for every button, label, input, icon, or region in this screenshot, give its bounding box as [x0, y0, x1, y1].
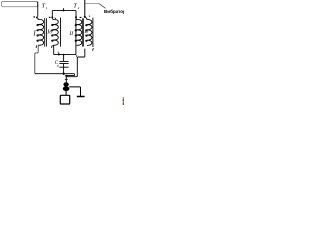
node a (terminal dot, T1 left coil top)	[36, 17, 38, 19]
tick comma at winding I bottom	[35, 45, 38, 48]
capacitor Сб lead lower	[63, 64, 65, 74]
transformer T1 winding Iб (right coil)	[52, 18, 59, 45]
node: dot on mid bus	[58, 53, 60, 55]
wire: vibrator to battery	[65, 91, 67, 96]
terminal letter mark a1	[33, 16, 35, 17]
svg-text:1: 1	[46, 6, 48, 10]
tick comma below T2 left	[75, 55, 78, 57]
tick comma at winding Iб bottom	[51, 46, 54, 49]
transformer T2 winding (right coil)	[85, 17, 92, 45]
node b (terminal dot, T1 right coil top)	[51, 16, 53, 18]
wire: vibrator to ground	[69, 87, 80, 96]
wire: T1 right coil bottom to mid bus	[53, 18, 76, 55]
ground	[77, 96, 85, 98]
tick at T1 right coil top	[55, 18, 56, 19]
transformer T2 winding (left coil)	[75, 18, 82, 45]
wire: from T2 center down to vibrator branch	[66, 49, 85, 77]
node c (terminal dot, T2 left coil top)	[75, 16, 77, 18]
svg-text:Вибратор: Вибратор	[104, 8, 124, 14]
core T2 (two lines)	[82, 18, 84, 46]
node: dot cap top junction	[63, 54, 65, 56]
terminal letter mark a2	[49, 17, 51, 18]
core line right of T2	[92, 18, 94, 47]
node: dot lower bus / cap	[62, 73, 64, 75]
input cable (grey rounded box, top-left)	[1, 2, 37, 7]
capacitor Сб plate 1	[59, 60, 68, 62]
transformer T1 winding I (left coil)	[37, 18, 44, 45]
terminal letter mark a3	[80, 17, 82, 18]
battery box	[60, 95, 69, 104]
tick at T2 right coil top	[89, 16, 90, 17]
wire: left vertical from cable to T1 primary top	[37, 2, 39, 17]
wire: T2 right coil top from image top	[84, 0, 86, 16]
wire: up from T1 winding Iб top	[52, 10, 76, 16]
capacitor Сб plate 2	[59, 63, 68, 65]
node: junction dot on top wire with stub	[63, 9, 65, 11]
vibrator armature (upper lobe)	[63, 82, 68, 86]
wire: down to vibrator contact	[65, 76, 67, 83]
red page artifact at right edge	[123, 97, 124, 99]
tick comma below T2 right	[92, 48, 95, 51]
wire: T1 primary bottom down-left to lower bus	[35, 45, 38, 73]
capacitor Сб lead upper	[63, 55, 65, 62]
svg-text:б: б	[57, 64, 59, 68]
node d (terminal dot, T2 right coil top)	[84, 16, 86, 18]
svg-text:2: 2	[78, 6, 80, 10]
core line right of T1	[60, 18, 62, 47]
core T1 (two lines)	[44, 18, 46, 46]
vibrator armature (lower lobe)	[63, 86, 70, 91]
node: dot at vibrator feed junction	[65, 75, 67, 77]
capacitor Сб plate 3	[59, 66, 68, 68]
leader line to vibrator label	[85, 3, 99, 5]
lower bus wire	[35, 74, 75, 76]
contact bar	[65, 78, 68, 80]
